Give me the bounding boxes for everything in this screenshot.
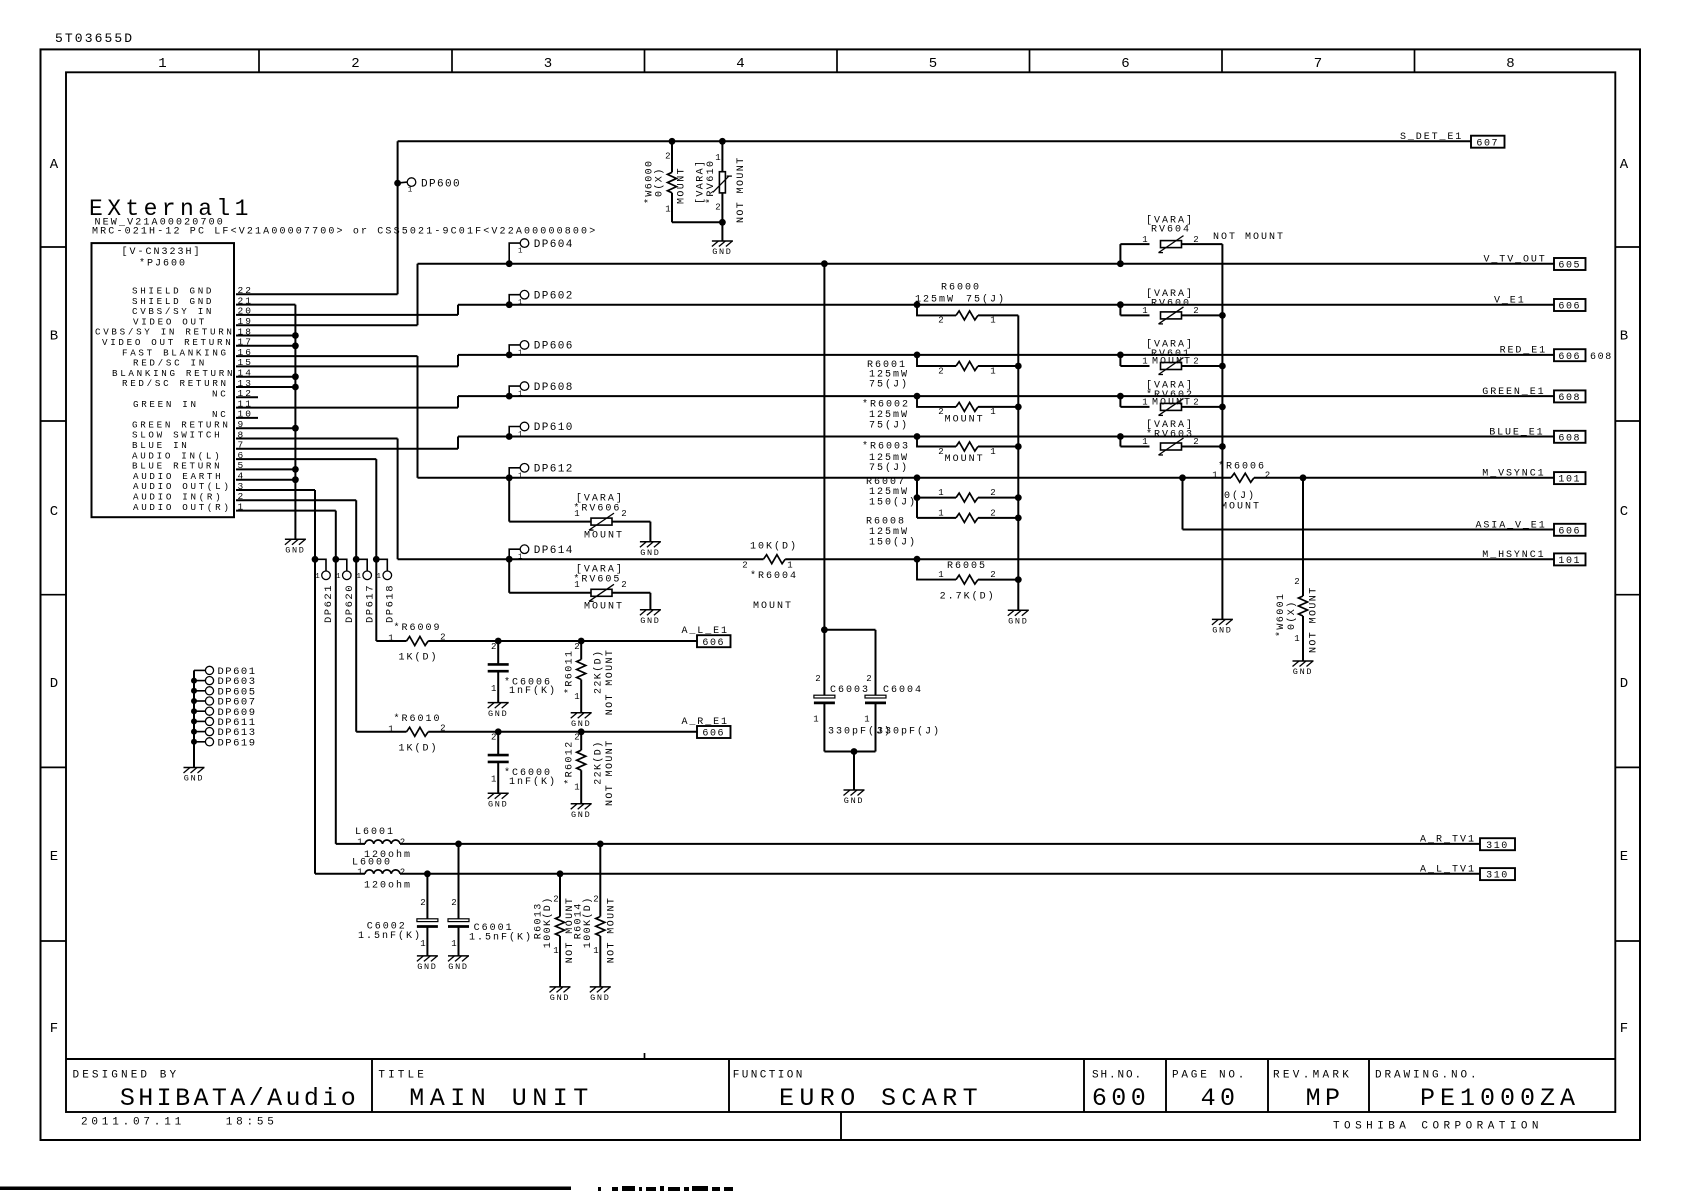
svg-text:310: 310 [1486, 841, 1509, 852]
svg-text:S_DET_E1: S_DET_E1 [1400, 132, 1463, 143]
svg-text:AUDIO OUT(R): AUDIO OUT(R) [133, 502, 232, 513]
capacitor C6000 1nF(K) [488, 728, 557, 793]
pin 1 AUDIO OUT(R) [133, 501, 245, 512]
svg-text:1: 1 [1294, 634, 1299, 644]
resistor R6003 [862, 433, 1018, 474]
svg-text:1: 1 [518, 248, 523, 256]
svg-text:2: 2 [553, 895, 558, 905]
svg-text:1: 1 [518, 349, 523, 357]
wire pin 19 [236, 324, 418, 326]
svg-text:1: 1 [388, 634, 393, 644]
svg-text:600: 600 [1092, 1084, 1150, 1113]
jumper DP614 [506, 545, 574, 563]
wire AUDIO OUT(R) drop to L6001 [335, 511, 337, 844]
svg-text:GND: GND [285, 546, 305, 556]
svg-text:C: C [50, 504, 58, 520]
svg-text:R6005: R6005 [947, 561, 987, 572]
svg-text:MOUNT: MOUNT [677, 167, 688, 204]
node S_DET_E1 [1400, 132, 1505, 149]
svg-text:2: 2 [491, 642, 496, 652]
inductor L6000 120ohm [315, 858, 412, 892]
title block SH.NO. cell [1092, 1070, 1150, 1114]
node GREEN_E1 [1482, 387, 1585, 404]
svg-text:C6004: C6004 [883, 685, 923, 696]
svg-text:RV604: RV604 [1151, 225, 1191, 236]
svg-text:2: 2 [440, 723, 445, 733]
svg-text:606: 606 [702, 729, 725, 740]
svg-text:GND: GND [590, 993, 610, 1003]
svg-text:MOUNT: MOUNT [945, 454, 985, 465]
svg-text:*RV603: *RV603 [1146, 429, 1194, 441]
svg-text:1: 1 [990, 366, 995, 376]
column numbers 1-8 [158, 56, 1514, 72]
svg-text:0(J): 0(J) [1224, 490, 1256, 502]
svg-text:DP604: DP604 [534, 239, 574, 251]
wire net RED_E1 [458, 355, 1554, 367]
svg-text:22K(D): 22K(D) [593, 740, 605, 784]
resistor R6013 100K(D) [533, 870, 576, 987]
svg-text:TITLE: TITLE [378, 1070, 427, 1082]
svg-text:GND: GND [712, 247, 732, 257]
svg-text:GND: GND [417, 962, 437, 972]
svg-text:2: 2 [593, 895, 598, 905]
svg-text:2: 2 [938, 316, 943, 326]
pin 5 BLUE RETURN [132, 460, 245, 471]
svg-text:1: 1 [388, 724, 393, 734]
varistor RV610 [695, 138, 748, 223]
svg-text:310: 310 [1486, 871, 1509, 882]
svg-text:1: 1 [491, 775, 496, 785]
bottom scan bar [0, 1187, 571, 1191]
svg-text:2: 2 [742, 561, 747, 571]
pin 20 CVBS/SY IN [132, 306, 253, 317]
pin 12 NC [212, 388, 253, 399]
svg-text:1: 1 [787, 561, 792, 571]
svg-text:*R6004: *R6004 [750, 570, 798, 582]
svg-text:1: 1 [158, 56, 166, 72]
block title EXternal1 [89, 196, 597, 238]
ground [1212, 619, 1233, 635]
wire AUDIO OUT(L) drop to L6000 [314, 490, 316, 874]
svg-text:DP620: DP620 [344, 584, 356, 623]
wire net M_VSYNC1 (from FAST BLANKING) [418, 356, 1555, 478]
svg-text:1: 1 [990, 407, 995, 417]
svg-text:2: 2 [351, 56, 359, 72]
resistor R6014 100K(D) [574, 841, 618, 987]
title block FUNCTION cell [733, 1070, 983, 1114]
jumper DP617 [353, 556, 377, 623]
svg-text:100K(D): 100K(D) [582, 896, 594, 948]
pin 19 VIDEO OUT [133, 316, 253, 327]
pin 11 GREEN IN [133, 398, 253, 409]
svg-text:SH.NO.: SH.NO. [1092, 1070, 1143, 1082]
ground [417, 956, 438, 972]
wire pin 18 [236, 335, 295, 337]
jumper ladder DP601-DP619 [191, 666, 257, 768]
svg-text:125mW: 125mW [915, 295, 955, 306]
svg-text:F: F [50, 1021, 58, 1037]
svg-text:MP: MP [1306, 1084, 1345, 1113]
wire V_TV_OUT branch to C6003/C6004 [821, 260, 876, 695]
svg-text:125mW: 125mW [869, 487, 909, 498]
wire pin 3 [236, 489, 315, 491]
resistor R6001 [867, 352, 1018, 391]
jumper DP602 [506, 290, 574, 308]
svg-text:GREEN_E1: GREEN_E1 [1482, 387, 1545, 398]
ground [448, 956, 469, 972]
wire net A_R_E1 [356, 731, 697, 733]
wire RV group bus to ground [1221, 244, 1223, 619]
svg-text:DP618: DP618 [385, 584, 397, 623]
svg-text:M_VSYNC1: M_VSYNC1 [1482, 469, 1545, 480]
svg-text:1: 1 [518, 431, 523, 439]
svg-text:*R6006: *R6006 [1218, 461, 1266, 473]
svg-text:1: 1 [665, 205, 670, 215]
wire pin 13 [236, 386, 295, 388]
jumper DP608 [506, 382, 574, 400]
svg-text:1.5nF(K): 1.5nF(K) [469, 932, 533, 944]
svg-text:DP600: DP600 [421, 179, 461, 191]
pin 2 AUDIO IN(R) [133, 491, 245, 502]
pin 4 AUDIO EARTH [133, 471, 245, 482]
svg-text:MOUNT: MOUNT [1152, 397, 1192, 408]
wire W6000-RV610 to ground [672, 219, 726, 241]
svg-text:150(J): 150(J) [869, 497, 917, 509]
resistor R6005 2.7K(D) [914, 556, 1019, 603]
svg-text:RED_E1: RED_E1 [1500, 346, 1547, 357]
varistor RV604 [1117, 215, 1285, 268]
svg-text:1: 1 [451, 939, 456, 949]
svg-text:6: 6 [1121, 56, 1129, 72]
svg-text:DP610: DP610 [534, 422, 574, 434]
svg-text:40: 40 [1201, 1084, 1240, 1113]
svg-text:1: 1 [938, 488, 943, 498]
capacitor C6004 330pF(J) [864, 674, 941, 738]
resistor W6000 [644, 138, 688, 222]
svg-text:GND: GND [1293, 667, 1313, 677]
node V_TV_OUT [1484, 255, 1586, 272]
svg-text:2: 2 [420, 898, 425, 908]
svg-text:1: 1 [990, 316, 995, 326]
svg-text:MOUNT: MOUNT [584, 602, 624, 613]
node BLUE_E1 [1489, 427, 1585, 444]
wire pin 22 [236, 293, 398, 295]
bottom scan marks [598, 1186, 733, 1191]
svg-text:V_E1: V_E1 [1494, 296, 1526, 307]
svg-text:2: 2 [1294, 577, 1299, 587]
svg-text:1K(D): 1K(D) [399, 742, 439, 754]
inductor L6001 120ohm [336, 827, 412, 861]
svg-text:REV.MARK: REV.MARK [1273, 1070, 1352, 1082]
varistor RV601 [1117, 339, 1226, 375]
svg-text:GND: GND [844, 796, 864, 806]
wire pin 17 [236, 345, 295, 347]
svg-text:2: 2 [1193, 306, 1198, 316]
svg-text:2: 2 [1193, 357, 1198, 367]
svg-text:GND: GND [488, 800, 508, 810]
resistor R6006 0(J) [1212, 461, 1270, 513]
wire AUDIO IN(L) drop to A_L_E1 [375, 459, 377, 641]
varistor RV605 [509, 559, 650, 612]
svg-text:2: 2 [990, 570, 995, 580]
svg-text:*RV605: *RV605 [573, 574, 621, 586]
row tick marks [41, 247, 1641, 941]
title block REV.MARK cell [1273, 1070, 1352, 1114]
svg-text:1: 1 [938, 570, 943, 580]
svg-text:*R6002: *R6002 [862, 399, 910, 411]
svg-text:A: A [1620, 157, 1629, 173]
svg-text:8: 8 [1506, 56, 1514, 72]
svg-text:PAGE NO.: PAGE NO. [1172, 1070, 1247, 1082]
svg-text:2: 2 [400, 867, 405, 877]
svg-text:*PJ600: *PJ600 [139, 257, 187, 269]
svg-text:BLUE_E1: BLUE_E1 [1489, 427, 1544, 438]
svg-text:1: 1 [357, 867, 362, 877]
svg-text:605: 605 [1558, 261, 1581, 272]
wire C6003/C6004 to ground [824, 703, 875, 790]
node V_E1 [1494, 296, 1586, 313]
resistor R6000 [914, 283, 1019, 326]
jumper DP604 [506, 239, 574, 267]
svg-text:3: 3 [544, 56, 552, 72]
svg-text:L6001: L6001 [355, 827, 395, 838]
ground [571, 713, 592, 729]
svg-text:2: 2 [990, 488, 995, 498]
svg-text:*W6001: *W6001 [1275, 593, 1287, 637]
ground [712, 241, 733, 257]
capacitor C6002 1.5nF(K) [358, 870, 438, 956]
title block DESIGNED BY cell [73, 1070, 360, 1114]
svg-text:2: 2 [1193, 437, 1198, 447]
svg-text:MRC-021H-12 PC LF<V21A00007700: MRC-021H-12 PC LF<V21A00007700> or CSS50… [92, 227, 597, 238]
svg-text:101: 101 [1558, 475, 1581, 486]
svg-text:1: 1 [813, 715, 818, 725]
svg-text:GND: GND [448, 962, 468, 972]
svg-text:5: 5 [929, 56, 937, 72]
svg-text:2011.07.11: 2011.07.11 [81, 1117, 185, 1129]
svg-text:608: 608 [1558, 393, 1581, 404]
wire net V_TV_OUT [418, 264, 1555, 326]
svg-text:*R6011: *R6011 [563, 650, 575, 694]
resistor R6010 1K(D) [388, 713, 445, 755]
wire pin 15 [236, 365, 458, 367]
svg-text:*R6009: *R6009 [394, 622, 442, 634]
svg-text:1: 1 [336, 573, 341, 581]
svg-text:2.7K(D): 2.7K(D) [940, 591, 996, 603]
wire net GREEN_E1 [458, 396, 1554, 408]
svg-text:GND: GND [1212, 626, 1232, 636]
svg-text:SHIBATA/Audio: SHIBATA/Audio [120, 1084, 359, 1113]
svg-text:C6003: C6003 [830, 685, 870, 696]
ground [844, 790, 865, 806]
svg-text:2: 2 [440, 633, 445, 643]
ground [550, 987, 571, 1003]
svg-text:606: 606 [1558, 352, 1581, 363]
wire net S_DET_E1 [398, 141, 1471, 294]
varistor *RV602 [1117, 379, 1226, 415]
svg-text:GND: GND [550, 993, 570, 1003]
ground bus of PJ600 return pins [292, 305, 299, 540]
svg-text:608: 608 [1590, 352, 1613, 363]
jumper DP618 [373, 556, 397, 623]
svg-text:2: 2 [815, 674, 820, 684]
node RED_E1 [1500, 346, 1613, 363]
ground [640, 542, 661, 558]
svg-text:DP612: DP612 [534, 464, 574, 476]
svg-text:608: 608 [1558, 433, 1581, 444]
resistor R6008 [866, 508, 1018, 548]
svg-text:D: D [50, 676, 58, 692]
svg-text:2: 2 [866, 674, 871, 684]
svg-text:2: 2 [1265, 471, 1270, 481]
resistor R6007 [866, 474, 1018, 518]
svg-text:0(X): 0(X) [1286, 600, 1298, 630]
node A_R_E1 [682, 717, 731, 740]
resistor R6002 [862, 393, 1018, 432]
svg-text:F: F [1620, 1021, 1628, 1037]
svg-text:GND: GND [571, 719, 591, 729]
row letters A-F right [1620, 157, 1629, 1037]
svg-text:NC: NC [212, 389, 228, 400]
wire net A_R_TV1 [400, 843, 1480, 845]
svg-text:B: B [50, 329, 58, 345]
pin 9 GREEN RETURN [132, 419, 245, 430]
ground [1293, 661, 1314, 677]
svg-text:GND: GND [640, 548, 660, 558]
svg-text:R6000: R6000 [941, 283, 981, 294]
ground [184, 768, 205, 784]
pin 22 SHIELD GND [132, 285, 253, 296]
svg-text:2: 2 [491, 733, 496, 743]
resistor W6001 [1275, 474, 1320, 661]
svg-text:1: 1 [593, 946, 598, 956]
svg-text:2: 2 [665, 152, 670, 162]
wire pin 5 [236, 468, 295, 470]
jumper DP620 [332, 556, 356, 623]
svg-text:607: 607 [1476, 138, 1499, 149]
svg-text:330pF(J): 330pF(J) [877, 726, 941, 738]
pin 6 AUDIO IN(L) [132, 450, 245, 461]
svg-text:RV600: RV600 [1151, 299, 1191, 310]
pin 8 SLOW SWITCH [132, 429, 245, 440]
resistor R6012 22K(D) [563, 728, 616, 806]
svg-text:NOT MOUNT: NOT MOUNT [605, 649, 616, 716]
capacitor C6003 330pF(J) [813, 674, 892, 738]
resistor R6009 1K(D) [388, 622, 445, 664]
svg-text:NOT MOUNT: NOT MOUNT [1213, 232, 1285, 243]
wire pin 11 [236, 407, 458, 409]
pin 17 VIDEO OUT RETURN [102, 337, 253, 348]
wire pin 2 [236, 499, 356, 501]
svg-text:1: 1 [491, 684, 496, 694]
svg-text:ASIA_V_E1: ASIA_V_E1 [1476, 520, 1547, 531]
svg-text:1: 1 [518, 472, 523, 480]
svg-text:D: D [1620, 676, 1628, 692]
svg-text:2: 2 [1193, 235, 1198, 245]
svg-text:DP608: DP608 [534, 382, 574, 394]
svg-text:1: 1 [553, 946, 558, 956]
svg-text:18:55: 18:55 [226, 1117, 278, 1129]
ground [640, 610, 661, 626]
svg-text:7: 7 [1314, 56, 1322, 72]
pin 18 CVBS/SY IN RETURN [95, 326, 253, 337]
svg-text:NOT MOUNT: NOT MOUNT [736, 156, 747, 223]
title block [66, 1059, 1615, 1140]
svg-text:2: 2 [451, 898, 456, 908]
svg-text:1: 1 [357, 838, 362, 848]
ground [285, 539, 306, 555]
svg-text:E: E [50, 849, 58, 865]
svg-text:150(J): 150(J) [869, 537, 917, 549]
wire net V_E1 [458, 305, 1554, 315]
capacitor C6006 1nF(K) [488, 638, 557, 703]
svg-text:EURO SCART: EURO SCART [779, 1084, 983, 1113]
svg-text:MOUNT: MOUNT [945, 414, 985, 425]
wire pin 1 [236, 510, 336, 512]
svg-text:DP614: DP614 [534, 545, 574, 557]
node A_R_TV1 [1420, 835, 1515, 852]
ground [488, 703, 509, 719]
svg-text:4: 4 [736, 56, 744, 72]
pin 3 AUDIO OUT(L) [133, 481, 245, 492]
svg-text:2: 2 [938, 366, 943, 376]
wire pin 20 [236, 314, 458, 316]
svg-text:[VARA]: [VARA] [695, 160, 707, 204]
svg-text:101: 101 [1558, 556, 1581, 567]
svg-text:75(J): 75(J) [869, 419, 909, 431]
svg-text:FUNCTION: FUNCTION [733, 1070, 805, 1082]
svg-text:NOT MOUNT: NOT MOUNT [607, 897, 618, 964]
wire pin 4 [236, 479, 295, 481]
wire R600x common bus to ground [1015, 315, 1022, 610]
svg-text:NOT MOUNT: NOT MOUNT [1309, 586, 1320, 653]
svg-text:DP606: DP606 [534, 341, 574, 353]
wire pin 8 [236, 438, 398, 440]
node M_HSYNC1 [1482, 550, 1585, 567]
svg-text:75(J): 75(J) [869, 378, 909, 390]
wire pin 16 [236, 355, 418, 357]
pin 13 RED/SC RETURN [122, 378, 253, 389]
wire pin 9 [236, 427, 295, 429]
svg-text:75(J): 75(J) [869, 462, 909, 474]
svg-text:DP621: DP621 [323, 584, 335, 623]
svg-text:1: 1 [864, 715, 869, 725]
node M_VSYNC1 [1482, 469, 1585, 486]
wire pin 7 [236, 448, 458, 450]
svg-text:2: 2 [400, 838, 405, 848]
resistor R6011 22K(D) [563, 638, 616, 716]
svg-text:2: 2 [621, 509, 626, 519]
svg-text:1: 1 [356, 573, 361, 581]
svg-text:120ohm: 120ohm [364, 880, 412, 892]
svg-text:1: 1 [938, 508, 943, 518]
svg-text:PE1000ZA: PE1000ZA [1420, 1084, 1580, 1113]
svg-text:[V-CN323H]: [V-CN323H] [121, 246, 201, 258]
svg-text:10K(D): 10K(D) [750, 541, 798, 553]
svg-text:2: 2 [1193, 397, 1198, 407]
svg-text:GND: GND [571, 810, 591, 820]
wire pin 6 [236, 458, 376, 460]
svg-text:M_HSYNC1: M_HSYNC1 [1482, 550, 1545, 561]
svg-text:606: 606 [1558, 526, 1581, 537]
svg-text:MOUNT: MOUNT [1152, 357, 1192, 368]
svg-text:B: B [1620, 329, 1628, 345]
jumper DP600 [394, 178, 461, 195]
svg-text:GND: GND [1008, 617, 1028, 627]
ground [488, 793, 509, 809]
svg-text:22K(D): 22K(D) [593, 650, 605, 694]
svg-text:R6008: R6008 [866, 517, 906, 528]
